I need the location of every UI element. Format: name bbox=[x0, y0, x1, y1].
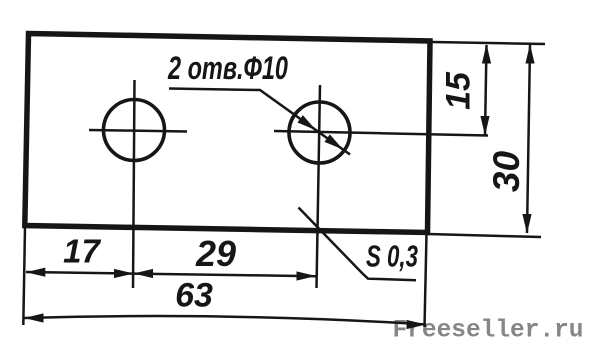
svg-text:29: 29 bbox=[195, 233, 236, 274]
svg-text:S 0,3: S 0,3 bbox=[366, 239, 418, 274]
svg-text:Freeseller.ru: Freeseller.ru bbox=[393, 316, 584, 345]
svg-text:63: 63 bbox=[175, 277, 213, 315]
svg-text:17: 17 bbox=[63, 233, 101, 270]
svg-text:2 отв.Ф10: 2 отв.Ф10 bbox=[167, 50, 288, 86]
svg-text:30: 30 bbox=[486, 151, 527, 193]
svg-text:15: 15 bbox=[440, 71, 478, 110]
